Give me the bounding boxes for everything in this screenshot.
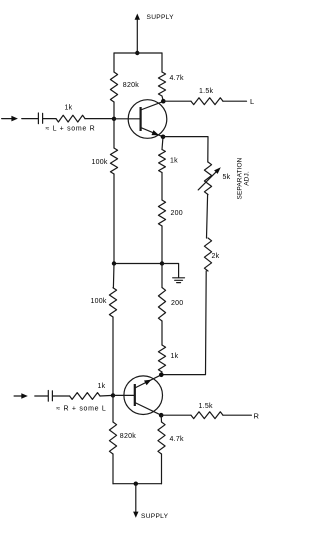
svg-text:R: R bbox=[254, 412, 260, 421]
transistor Q2 (bottom, NPN flipped) bbox=[113, 375, 163, 415]
node: Q1 base bbox=[112, 117, 116, 121]
wire collector to 1.5k bbox=[163, 100, 191, 102]
svg-text:1k: 1k bbox=[171, 353, 179, 360]
svg-text:1k: 1k bbox=[170, 158, 178, 165]
node: Q2 collector bbox=[159, 413, 164, 418]
svg-text:820k: 820k bbox=[120, 433, 136, 440]
svg-text:≈ L + some R: ≈ L + some R bbox=[46, 125, 96, 132]
resistor 200 (upper middle) bbox=[158, 200, 165, 226]
svg-text:SEPARATIONADJ.: SEPARATIONADJ. bbox=[237, 157, 251, 199]
wire 820k to base node bbox=[113, 102, 115, 119]
wire capacitor to 1k bbox=[43, 118, 56, 120]
node: top supply junction bbox=[135, 51, 139, 55]
svg-text:2k: 2k bbox=[212, 253, 220, 260]
resistor 1.5k (bottom output) bbox=[191, 412, 223, 419]
svg-text:1.5k: 1.5k bbox=[199, 88, 213, 95]
wire 1.5k to L terminal bbox=[223, 100, 247, 102]
wire 1k to Q2 emitter node bbox=[160, 372, 163, 375]
wire base node down to 100k bbox=[113, 119, 115, 148]
svg-text:820k: 820k bbox=[123, 82, 139, 89]
node: Q1 emitter bbox=[161, 135, 166, 140]
node: bottom supply junction bbox=[134, 482, 138, 486]
resistor 1k (bottom input) bbox=[70, 393, 100, 400]
wire 2k down to Q2 emitter node bbox=[161, 271, 206, 375]
svg-text:SUPPLY: SUPPLY bbox=[141, 513, 169, 520]
wire mid junction to lower 200 bbox=[161, 264, 163, 288]
svg-text:L: L bbox=[250, 97, 254, 106]
wire mid rail bbox=[114, 263, 162, 265]
resistor 820k (bottom) bbox=[109, 422, 116, 454]
input arrow (bottom, R channel in) bbox=[14, 393, 28, 399]
svg-text:1k: 1k bbox=[65, 105, 73, 112]
wire Q2 base node to 820k bbox=[112, 395, 114, 422]
resistor 2k bbox=[204, 238, 211, 271]
svg-text:4.7k: 4.7k bbox=[170, 436, 184, 443]
resistor 1k (top input) bbox=[56, 115, 85, 122]
resistor 200 (lower middle) bbox=[158, 288, 165, 322]
resistor 1.5k (top output) bbox=[191, 98, 223, 105]
svg-text:4.7k: 4.7k bbox=[170, 75, 184, 82]
resistor 1k (upper middle) bbox=[159, 150, 166, 173]
wire 1k to base node bbox=[85, 118, 114, 120]
wire input to capacitor bbox=[35, 395, 48, 397]
ground bbox=[173, 278, 185, 283]
wire left drop to 820k bbox=[113, 53, 115, 72]
node: mid center junction bbox=[160, 261, 164, 265]
wire right drop to 4.7k bbox=[161, 53, 163, 72]
svg-text:100k: 100k bbox=[91, 298, 107, 305]
wire 4.7k to bottom rail bbox=[161, 454, 163, 484]
supply arrow (top, +SUPPLY) bbox=[135, 14, 140, 54]
node: Q2 base bbox=[111, 393, 115, 397]
wire 1k to Q2 base node bbox=[100, 394, 113, 397]
resistor 820k (top) bbox=[110, 72, 117, 102]
supply arrow (bottom, -SUPPLY) bbox=[133, 484, 138, 518]
svg-text:5k: 5k bbox=[223, 174, 231, 181]
capacitor C2 (bottom input) bbox=[48, 391, 52, 402]
svg-text:≈ R + some L: ≈ R + some L bbox=[56, 406, 106, 413]
svg-text:200: 200 bbox=[171, 300, 183, 307]
wire 100k to Q2 base node bbox=[112, 317, 114, 395]
wire 100k to mid junction bbox=[113, 174, 115, 264]
resistor 1k (lower middle) bbox=[158, 345, 165, 372]
wire Q1 emitter to 1k bbox=[162, 137, 163, 150]
wire to ground bbox=[162, 264, 179, 278]
capacitor C1 (top input) bbox=[38, 113, 42, 124]
wire collector to 1.5k bbox=[161, 414, 191, 416]
node: Q1 collector bbox=[161, 99, 166, 104]
resistor 4.7k (top) bbox=[158, 72, 165, 101]
wire bottom rail bbox=[113, 483, 162, 485]
resistor 100k (lower left) bbox=[109, 288, 116, 317]
wire 820k to bottom rail bbox=[112, 454, 114, 484]
svg-text:100k: 100k bbox=[92, 159, 108, 166]
svg-text:SUPPLY: SUPPLY bbox=[147, 14, 175, 21]
input arrow (top, L channel in) bbox=[2, 116, 18, 122]
svg-text:200: 200 bbox=[171, 210, 183, 217]
wire 1.5k to R terminal bbox=[223, 414, 251, 416]
wire input to capacitor bbox=[22, 118, 38, 120]
resistor 4.7k (bottom) bbox=[158, 422, 165, 454]
wire mid junction to lower 100k bbox=[112, 264, 115, 288]
wire Q1 emitter to separation pot bbox=[163, 137, 208, 162]
svg-text:1k: 1k bbox=[98, 383, 106, 390]
wire 200 to mid junction bbox=[161, 226, 163, 264]
wire 1k to 200 bbox=[161, 173, 163, 201]
potentiometer 5k (separation adj) bbox=[198, 162, 221, 195]
resistor 100k (upper left) bbox=[110, 148, 117, 174]
node: mid left junction bbox=[112, 261, 116, 265]
transistor Q1 (top, NPN) bbox=[114, 100, 167, 139]
wire Q2 collector to 4.7k bbox=[160, 415, 162, 422]
node: Q2 emitter bbox=[159, 373, 164, 378]
wire 200 to 1k bbox=[161, 321, 163, 345]
wire pot to 2k bbox=[207, 195, 208, 239]
wire capacitor to 1k bbox=[53, 395, 70, 397]
svg-text:1.5k: 1.5k bbox=[199, 403, 213, 410]
wire top rail bbox=[114, 52, 162, 54]
